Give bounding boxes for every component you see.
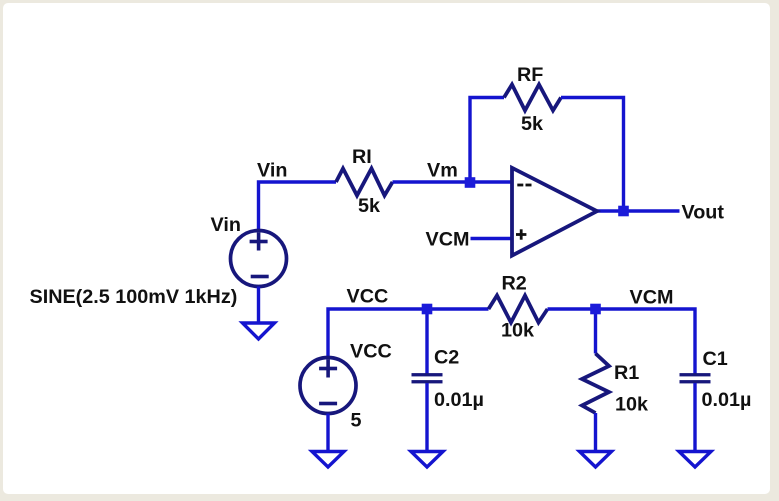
svg-text:RF: RF (517, 64, 543, 86)
svg-text:Vin: Vin (257, 160, 287, 182)
wire: VCM node to R1 (594, 309, 597, 354)
wire: VCC source to rail and C2 node (328, 309, 489, 358)
svg-text:VCM: VCM (630, 287, 674, 309)
voltage source Vin minus (251, 275, 269, 279)
voltage source VCC minus (319, 402, 337, 406)
resistor R2 (489, 296, 548, 323)
svg-text:0.01µ: 0.01µ (702, 389, 752, 411)
wire: node Vm up to RF (470, 98, 504, 183)
wire: C2 to ground (425, 383, 428, 451)
wire: Vin source to RI (259, 182, 337, 230)
capacitor C1 plates (680, 373, 711, 383)
ground at VCC source (312, 452, 344, 468)
ground at Vin source (243, 323, 275, 339)
voltage source Vin plus (250, 233, 268, 251)
wire: RF to output node (561, 98, 624, 212)
svg-text:VCC: VCC (350, 341, 392, 363)
op-amp U1 body (512, 168, 597, 256)
resistor RF (504, 85, 561, 111)
op-amp non-inverting input marker + (516, 229, 526, 239)
wire: RI to node Vm (393, 180, 471, 183)
svg-text:SINE(2.5 100mV 1kHz): SINE(2.5 100mV 1kHz) (30, 286, 238, 308)
wire: op-amp output to Vout (597, 209, 680, 212)
voltage source VCC plus (319, 360, 337, 378)
svg-text:R2: R2 (502, 273, 527, 295)
svg-text:VCM: VCM (426, 229, 470, 251)
svg-text:Vout: Vout (682, 202, 725, 224)
wire: node Vm to op-amp inverting input (470, 180, 513, 183)
wire: C2 node down to top plate (425, 309, 428, 374)
wire: C1 to ground (693, 383, 696, 451)
svg-text:5k: 5k (358, 195, 381, 217)
junction node Vm (465, 177, 476, 188)
ground at C2 (411, 452, 443, 468)
wire: VCM to op-amp non-inverting input (471, 237, 514, 240)
svg-text:0.01µ: 0.01µ (434, 389, 484, 411)
svg-text:Vm: Vm (427, 160, 458, 182)
voltage source Vin circle (231, 231, 287, 287)
op-amp inverting input marker -- (517, 184, 531, 187)
capacitor C2 plates (412, 373, 443, 383)
ground at R1 (580, 452, 612, 468)
svg-text:C2: C2 (434, 347, 459, 369)
wire: VCC source to ground (326, 414, 329, 452)
svg-text:Vin: Vin (211, 214, 241, 236)
svg-text:RI: RI (352, 146, 372, 168)
ground at C1 (679, 452, 711, 468)
svg-text:5: 5 (351, 410, 362, 432)
svg-text:R1: R1 (614, 362, 639, 384)
resistor RI (336, 169, 393, 196)
junction node VCM/R1 (590, 304, 601, 315)
wire: Vin source to ground (257, 287, 260, 323)
wire: R2 to VCM node and C1 (548, 309, 696, 374)
svg-text:C1: C1 (703, 348, 728, 370)
svg-text:5k: 5k (521, 113, 544, 135)
voltage source VCC circle (300, 358, 356, 414)
svg-text:10k: 10k (501, 320, 535, 342)
svg-text:VCC: VCC (347, 286, 389, 308)
svg-text:10k: 10k (615, 394, 649, 416)
resistor R1 (582, 354, 609, 414)
junction node VCC/C2 (422, 304, 433, 315)
junction node Vout (618, 206, 629, 217)
wire: R1 to ground (594, 413, 597, 451)
